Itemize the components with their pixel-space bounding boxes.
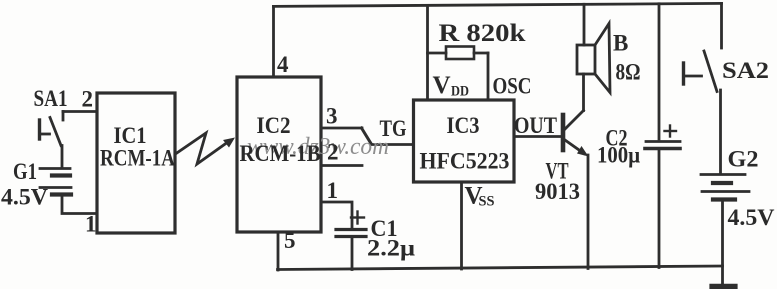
svg-text:RCM-1B: RCM-1B bbox=[240, 141, 321, 166]
svg-text:3: 3 bbox=[326, 104, 338, 129]
svg-text:DD: DD bbox=[451, 84, 469, 100]
svg-text:8Ω: 8Ω bbox=[616, 60, 641, 85]
svg-text:1: 1 bbox=[327, 178, 339, 203]
svg-text:G2: G2 bbox=[728, 147, 759, 172]
svg-text:G1: G1 bbox=[13, 159, 37, 184]
svg-text:100μ: 100μ bbox=[597, 143, 640, 168]
svg-text:SA1: SA1 bbox=[34, 86, 68, 111]
svg-text:4.5V: 4.5V bbox=[1, 185, 48, 210]
svg-text:OUT: OUT bbox=[514, 113, 557, 138]
svg-text:4: 4 bbox=[277, 52, 289, 77]
svg-text:IC2: IC2 bbox=[257, 113, 291, 138]
svg-text:5: 5 bbox=[284, 228, 296, 253]
svg-text:V: V bbox=[433, 72, 451, 99]
svg-text:IC1: IC1 bbox=[114, 123, 147, 148]
svg-text:B: B bbox=[613, 31, 628, 56]
svg-text:SS: SS bbox=[479, 194, 495, 210]
svg-text:2: 2 bbox=[327, 140, 339, 165]
svg-text:R 820k: R 820k bbox=[439, 20, 526, 47]
svg-text:HFC5223: HFC5223 bbox=[420, 149, 510, 174]
svg-text:OSC: OSC bbox=[493, 74, 532, 99]
svg-text:1: 1 bbox=[85, 212, 97, 237]
svg-text:2.2μ: 2.2μ bbox=[367, 236, 415, 261]
svg-text:SA2: SA2 bbox=[722, 58, 769, 83]
svg-text:IC3: IC3 bbox=[447, 113, 480, 138]
svg-text:4.5V: 4.5V bbox=[728, 205, 775, 230]
svg-text:TG: TG bbox=[380, 116, 407, 141]
svg-text:RCM-1A: RCM-1A bbox=[100, 146, 175, 171]
svg-text:2: 2 bbox=[82, 87, 94, 112]
svg-text:9013: 9013 bbox=[535, 179, 580, 204]
